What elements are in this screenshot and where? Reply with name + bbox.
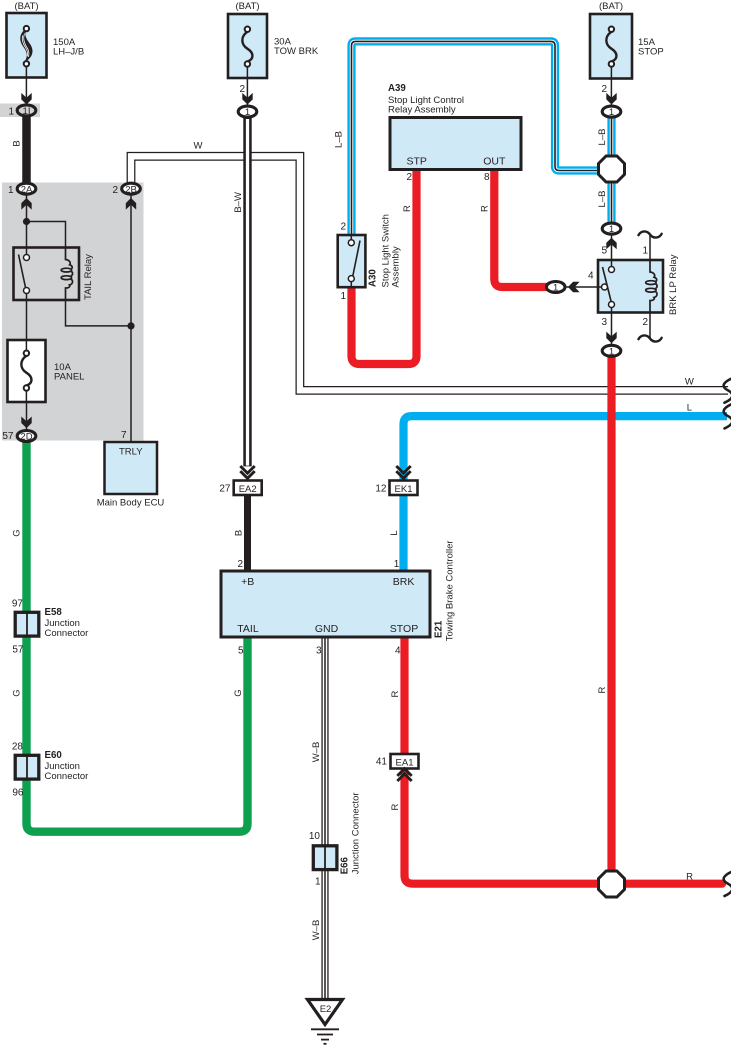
junction connector E58 xyxy=(15,612,39,636)
wire from BRK LP relay pin 5 connector xyxy=(611,235,613,262)
wire L from right edge to EK1 chevrons xyxy=(404,416,728,480)
wire R from BRK LP relay pin 3 connector to octagon xyxy=(607,356,615,878)
wire B from EA2 to E21 +B pin xyxy=(244,495,251,572)
svg-text:E2: E2 xyxy=(320,1004,332,1015)
arrow into 1I xyxy=(21,93,31,105)
connector oval 1I xyxy=(17,105,36,117)
svg-text:Relay Assembly: Relay Assembly xyxy=(388,104,456,115)
svg-text:57: 57 xyxy=(2,431,14,442)
svg-text:97: 97 xyxy=(12,599,24,610)
junction dot node xyxy=(23,218,30,225)
wire from tail relay switch to fuse 10A xyxy=(26,291,28,351)
junction connector E60 xyxy=(15,755,39,779)
connector oval 1 below fuse 15A xyxy=(602,106,621,118)
connector EK1 xyxy=(390,481,418,496)
svg-text:4: 4 xyxy=(395,646,401,657)
svg-text:TAIL Relay: TAIL Relay xyxy=(83,254,94,300)
svg-text:A30: A30 xyxy=(368,269,379,287)
svg-text:R: R xyxy=(480,205,491,212)
svg-text:1: 1 xyxy=(8,185,14,196)
svg-text:TOW BRK: TOW BRK xyxy=(274,46,319,57)
svg-text:2D: 2D xyxy=(20,432,32,443)
wire from BRK LP relay pin 3 xyxy=(611,310,613,345)
svg-text:R: R xyxy=(390,803,401,810)
svg-text:5: 5 xyxy=(601,246,607,257)
wire R from E21 STOP through EA1 to octagon and right edge xyxy=(400,636,408,755)
wire R from A39 OUT to connector at relay pin 4 xyxy=(494,170,547,287)
svg-text:STOP: STOP xyxy=(390,623,418,635)
svg-text:E21: E21 xyxy=(434,620,445,638)
svg-text:1: 1 xyxy=(609,107,614,118)
svg-text:8: 8 xyxy=(484,172,490,183)
svg-text:3: 3 xyxy=(316,646,322,657)
svg-text:E60: E60 xyxy=(45,750,62,761)
svg-text:G: G xyxy=(12,689,23,696)
connector oval 2B xyxy=(122,183,141,195)
BRK LP relay switch xyxy=(599,261,615,314)
wire from BRK LP relay pin 4 to connector xyxy=(566,286,599,288)
svg-text:GND: GND xyxy=(315,623,339,635)
double chevron arrow above EK1 xyxy=(396,466,410,478)
wire BRK LP relay coil pin 1 xyxy=(649,235,651,262)
svg-text:2: 2 xyxy=(642,317,648,328)
tail relay coil xyxy=(66,247,73,301)
svg-text:L–B: L–B xyxy=(597,191,608,208)
break squiggle wire W right edge xyxy=(724,379,731,403)
svg-text:R: R xyxy=(597,686,608,693)
connector EA2 xyxy=(234,481,262,496)
svg-text:PANEL: PANEL xyxy=(54,372,84,383)
svg-text:R: R xyxy=(402,205,413,212)
wire BRK LP relay coil pin 2 xyxy=(649,310,651,339)
svg-text:3: 3 xyxy=(601,317,607,328)
wire from 2A to tail relay switch xyxy=(26,194,28,254)
svg-text:STOP: STOP xyxy=(638,46,664,57)
fuse 15A STOP xyxy=(590,14,632,79)
wire from 2B down to Main Body ECU pin 7 xyxy=(130,194,132,442)
fuse 10A PANEL xyxy=(8,340,46,402)
arrow up into 2A xyxy=(21,198,31,210)
break squiggle wire R right edge xyxy=(724,872,731,896)
svg-text:STP: STP xyxy=(406,156,426,168)
svg-text:B–W: B–W xyxy=(233,192,244,213)
connector oval 2A xyxy=(17,183,36,195)
svg-text:Towing Brake Controller: Towing Brake Controller xyxy=(445,540,456,641)
svg-text:L–B: L–B xyxy=(334,131,345,148)
svg-text:1: 1 xyxy=(642,246,648,257)
arrow down into connector below relay pin 3 xyxy=(606,332,616,344)
svg-text:(BAT): (BAT) xyxy=(235,1,259,12)
svg-text:TRLY: TRLY xyxy=(119,447,143,458)
svg-text:Junction Connector: Junction Connector xyxy=(351,792,362,874)
svg-text:A39: A39 xyxy=(388,83,406,94)
svg-text:(BAT): (BAT) xyxy=(599,1,623,12)
wire B from 1I to 2A xyxy=(22,115,31,186)
svg-text:2: 2 xyxy=(340,222,346,233)
svg-text:R: R xyxy=(686,871,693,882)
Main Body ECU TRLY box xyxy=(105,442,158,494)
ground symbol E2 xyxy=(308,1000,343,1044)
tail relay switch xyxy=(19,248,30,301)
svg-text:Connector: Connector xyxy=(45,628,89,639)
junction block shaded gray area xyxy=(2,183,144,441)
svg-text:E58: E58 xyxy=(45,607,63,618)
svg-text:Main Body ECU: Main Body ECU xyxy=(97,497,165,508)
arrow left into connector at relay pin 4 xyxy=(568,282,580,292)
svg-text:R: R xyxy=(390,690,401,697)
svg-text:L–B: L–B xyxy=(597,129,608,146)
svg-text:+B: +B xyxy=(241,576,254,588)
tail relay box xyxy=(14,248,80,301)
junction dot on 2B branch xyxy=(127,322,134,329)
connector oval 1 above BRK LP relay xyxy=(602,223,621,235)
wire W from connector 2B up, right and down to right edge xyxy=(131,156,728,390)
octagon junction lower xyxy=(599,871,625,897)
svg-text:41: 41 xyxy=(376,757,388,768)
svg-text:B: B xyxy=(12,140,23,146)
wire from fuse 15A to connector xyxy=(610,65,612,106)
wire L-B from A30 up over and to octagon junction xyxy=(352,41,601,238)
wire from fuse 10A to connector 2D xyxy=(26,389,28,429)
svg-text:W: W xyxy=(685,376,694,387)
svg-text:W: W xyxy=(194,140,203,151)
svg-text:B: B xyxy=(234,530,245,536)
svg-text:G: G xyxy=(12,529,23,536)
svg-text:1: 1 xyxy=(315,877,321,888)
octagon junction upper xyxy=(599,156,625,182)
svg-text:1: 1 xyxy=(609,224,614,235)
svg-text:EK1: EK1 xyxy=(395,484,413,495)
connector oval 1 at relay pin 4 xyxy=(546,282,565,294)
svg-text:2: 2 xyxy=(239,84,245,95)
wire from fuse 150A to connector 1I xyxy=(25,65,27,104)
svg-text:2: 2 xyxy=(601,84,607,95)
arrow up into connector above BRK LP relay pin 5 xyxy=(606,238,616,250)
svg-text:Connector: Connector xyxy=(45,771,89,782)
svg-text:L: L xyxy=(687,403,692,414)
svg-text:G: G xyxy=(233,689,244,696)
svg-text:BRK: BRK xyxy=(393,576,415,588)
svg-text:EA2: EA2 xyxy=(239,484,257,495)
BRK LP relay coil xyxy=(650,260,657,313)
wire from fuse 30A to connector xyxy=(246,65,248,106)
arrow down into 2D xyxy=(21,417,31,429)
arrow up into 2B xyxy=(126,198,136,210)
arrow into connector 1 below fuse 30A xyxy=(242,93,252,105)
wire W-B from E21 GND to ground E2 xyxy=(321,636,328,1000)
svg-text:57: 57 xyxy=(12,645,24,656)
double chevron arrow below EA1 pointing up xyxy=(397,769,411,781)
A39 stop light control relay assembly box xyxy=(390,118,521,170)
svg-text:12: 12 xyxy=(375,484,387,495)
svg-text:2A: 2A xyxy=(21,184,33,195)
wire G from 2D through E58 E60 to E21 TAIL pin xyxy=(27,440,248,832)
wire R stop light switch U path STP to A30 xyxy=(352,170,417,364)
svg-text:Assembly: Assembly xyxy=(391,246,402,287)
svg-text:1I: 1I xyxy=(23,106,31,117)
connector oval 1 below fuse 30A xyxy=(238,106,257,118)
svg-text:W–B: W–B xyxy=(311,920,322,941)
break squiggle relay pin 2 xyxy=(639,335,662,341)
fuse 150A LH-J/B xyxy=(7,13,47,78)
BRK LP relay box xyxy=(598,260,663,313)
svg-text:E66: E66 xyxy=(340,856,351,874)
wire B-W from connector to EA2 xyxy=(243,117,251,466)
break squiggle relay pin 1 xyxy=(639,231,662,237)
svg-text:LH–J/B: LH–J/B xyxy=(53,47,84,58)
break squiggle wire L right edge xyxy=(724,404,731,428)
svg-text:27: 27 xyxy=(219,484,231,495)
svg-text:2: 2 xyxy=(112,185,118,196)
wire L from EK1 to E21 BRK pin xyxy=(399,496,407,573)
svg-text:7: 7 xyxy=(121,430,127,441)
svg-text:1: 1 xyxy=(394,559,400,570)
A30 switch xyxy=(348,236,360,287)
connector 1I gray band xyxy=(0,104,40,118)
arrow into connector 1 below fuse 15A xyxy=(606,93,616,105)
E21 towing brake controller box xyxy=(221,571,430,637)
svg-text:1: 1 xyxy=(245,107,250,118)
wire from tail relay coil to 2B branch xyxy=(66,288,132,326)
svg-text:BRK LP Relay: BRK LP Relay xyxy=(668,254,679,315)
svg-text:W–B: W–B xyxy=(311,742,322,763)
svg-text:96: 96 xyxy=(12,788,24,799)
svg-text:TAIL: TAIL xyxy=(237,623,259,635)
svg-text:2B: 2B xyxy=(125,184,137,195)
junction connector E66 xyxy=(313,845,337,870)
connector oval 2D xyxy=(17,431,36,443)
wire L-B from octagon to connector above BRK LP relay xyxy=(607,180,615,222)
svg-text:2: 2 xyxy=(237,559,243,570)
svg-text:28: 28 xyxy=(12,742,24,753)
connector EA1 xyxy=(391,754,419,769)
svg-text:10: 10 xyxy=(309,831,321,842)
svg-text:1: 1 xyxy=(609,346,614,357)
svg-text:2: 2 xyxy=(406,172,412,183)
svg-text:(BAT): (BAT) xyxy=(14,1,38,12)
svg-text:L: L xyxy=(389,530,400,535)
connector oval 1 below relay pin 3 xyxy=(602,345,621,357)
svg-text:5: 5 xyxy=(238,646,244,657)
svg-text:1: 1 xyxy=(553,283,558,294)
A30 stop light switch assembly box xyxy=(338,235,366,287)
fuse 30A TOW BRK xyxy=(228,14,267,78)
wire L-B from connector to octagon xyxy=(607,117,615,158)
wire from junction dot to tail relay coil xyxy=(27,222,66,251)
svg-text:OUT: OUT xyxy=(483,156,506,168)
svg-text:1: 1 xyxy=(8,107,14,118)
svg-text:1: 1 xyxy=(340,291,346,302)
svg-text:4: 4 xyxy=(588,271,594,282)
double chevron arrow above EA2 xyxy=(240,466,254,478)
